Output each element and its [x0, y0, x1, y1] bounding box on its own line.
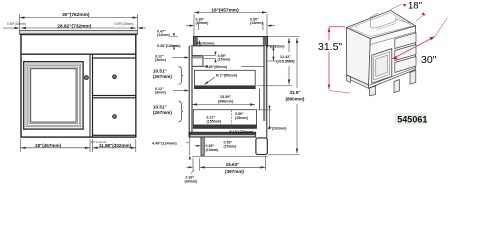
- interior platform edge: [396, 19, 410, 23]
- front wall double line: [188, 46, 190, 137]
- svg-text:12.42": 12.42": [280, 55, 292, 59]
- dim 2.36 bottom: [187, 166, 193, 168]
- pointer 0.47: [173, 33, 175, 36]
- svg-text:18"(457mm): 18"(457mm): [211, 7, 239, 13]
- dim 18in top: [194, 11, 267, 13]
- counter slab side: [194, 37, 268, 46]
- svg-text:15.63": 15.63": [226, 162, 240, 167]
- door knob: [84, 76, 88, 80]
- drawer 3 3d: [395, 57, 416, 73]
- leg front-left: [370, 86, 376, 96]
- dim 28.82: [21, 27, 136, 29]
- drawer top front: [93, 58, 136, 96]
- front leg: [201, 137, 204, 155]
- drawer bottom knob: [113, 115, 117, 119]
- svg-text:0.59"(15mm): 0.59"(15mm): [115, 22, 134, 26]
- leg back-left: [347, 75, 351, 83]
- right 0.59 arrow: [139, 27, 146, 29]
- cabinet body: [21, 35, 136, 138]
- dim 4 right top: [268, 45, 277, 47]
- svg-text:30": 30": [421, 54, 437, 66]
- text 2.36 rail: [205, 64, 242, 69]
- drawer top knob: [113, 75, 117, 79]
- brace 10.51 a: [179, 67, 183, 85]
- drawer 2 3d: [395, 45, 416, 61]
- dim 11.88 bottom: [93, 147, 136, 149]
- svg-text:(155mm): (155mm): [207, 119, 223, 123]
- svg-text:(3mm): (3mm): [155, 91, 167, 95]
- top rail box: [192, 56, 203, 67]
- floor line: [192, 155, 268, 157]
- dim 31.5: [268, 154, 300, 156]
- svg-text:10.51": 10.51": [153, 69, 167, 74]
- svg-text:30"(762mm): 30"(762mm): [62, 12, 90, 18]
- upper drawer box: [195, 70, 256, 88]
- top rim: [347, 10, 416, 38]
- svg-text:2.36": 2.36": [186, 175, 195, 179]
- svg-text:10.51": 10.51": [153, 105, 167, 110]
- side view dimension graphics: [170, 11, 300, 173]
- svg-text:31.5": 31.5": [289, 90, 300, 95]
- R2 pointer: [205, 77, 216, 85]
- part number 545061: [395, 113, 427, 124]
- side panel bottom notch: [347, 75, 370, 88]
- svg-text:(60mm): (60mm): [185, 180, 199, 184]
- countertop slab front: [20, 30, 138, 34]
- top inner rim: [350, 13, 413, 37]
- dim 15.63 bottom: [200, 166, 266, 168]
- svg-text:(15mm): (15mm): [224, 144, 238, 148]
- svg-text:4.49"(114mm): 4.49"(114mm): [152, 142, 177, 146]
- svg-text:31.5": 31.5": [318, 41, 342, 53]
- svg-text:(12mm): (12mm): [157, 33, 171, 37]
- svg-text:(3mm): (3mm): [155, 58, 167, 62]
- front bottom rail line: [369, 68, 416, 86]
- svg-text:(315.5MM): (315.5MM): [276, 60, 295, 64]
- front view dimensions: [3, 14, 146, 152]
- svg-text:(397mm): (397mm): [225, 169, 244, 174]
- dim 0.59 updown arrows (rail): [214, 52, 216, 63]
- door frame line 2: [28, 66, 80, 126]
- svg-text:(15mm): (15mm): [235, 116, 249, 120]
- interior rail second line: [377, 23, 396, 29]
- bottom extension lines: [20, 139, 22, 152]
- svg-text:18"(457mm): 18"(457mm): [35, 143, 62, 148]
- svg-text:5.12"(130mm): 5.12"(130mm): [230, 130, 254, 134]
- left 0.59 arrow: [3, 27, 18, 29]
- red dim 30: [393, 37, 435, 59]
- interior floor line: [353, 25, 358, 28]
- lower drawer box: [193, 110, 256, 129]
- svg-text:(10mm): (10mm): [206, 148, 220, 152]
- red dim 31.5: [328, 27, 330, 41]
- leg middle: [394, 80, 400, 93]
- svg-text:0.59"(15mm): 0.59"(15mm): [7, 22, 26, 26]
- dim 4 lower right: [258, 109, 272, 111]
- door inner panel: [31, 69, 76, 122]
- dim 18in bottom: [21, 147, 91, 149]
- red dim 18: [390, 4, 402, 10]
- interior U channel: [370, 13, 395, 28]
- 3D red dimensions: [318, 0, 448, 93]
- svg-text:(15mm): (15mm): [218, 58, 232, 62]
- door frame line 3: [29, 67, 78, 124]
- tiny 0.39 left dim: [186, 25, 193, 27]
- arrow to front leg (0.39): [195, 145, 200, 147]
- svg-text:(10mm): (10mm): [196, 21, 210, 25]
- pointer 0.12 b: [173, 90, 188, 92]
- drawer bottom front: [93, 98, 136, 136]
- pointer 4 left interior: [198, 41, 200, 47]
- back leg: [256, 138, 267, 155]
- door outer: [24, 62, 83, 129]
- svg-text:5.28"(134mm): 5.28"(134mm): [157, 44, 181, 48]
- door frame line 1: [26, 64, 81, 127]
- left side face: [347, 28, 371, 86]
- svg-text:(267mm): (267mm): [153, 74, 172, 79]
- drawer 1 3d: [395, 33, 416, 49]
- svg-text:18": 18": [408, 0, 422, 11]
- leg right: [410, 70, 416, 84]
- svg-text:545061: 545061: [397, 114, 427, 124]
- svg-text:R 2"(50mm): R 2"(50mm): [216, 74, 238, 78]
- stile lines: [89, 55, 91, 137]
- dim 15.59: [192, 104, 255, 106]
- dashed vertical in lower box: [231, 110, 233, 128]
- svg-text:4"(102mm): 4"(102mm): [266, 44, 285, 48]
- lower drawer box bottom band: [193, 125, 257, 129]
- svg-text:2.36"(60mm): 2.36"(60mm): [206, 65, 228, 69]
- pointer 5.28: [191, 45, 194, 47]
- svg-text:(396mm): (396mm): [218, 99, 234, 103]
- cabinet bottom band: [189, 132, 255, 137]
- dim 4.49 vertical ticks: [189, 138, 191, 156]
- top rail line: [21, 53, 136, 55]
- front face: [368, 26, 415, 88]
- brace 10.51 b: [179, 101, 183, 122]
- svg-text:(267mm): (267mm): [153, 110, 172, 115]
- pointer 0.12 a: [172, 57, 188, 59]
- door 3d: [372, 49, 392, 84]
- svg-text:4"(102mm): 4"(102mm): [268, 127, 287, 131]
- back wall double line: [264, 46, 266, 121]
- upper drawer box bottom band: [194, 85, 256, 88]
- svg-text:(13mm): (13mm): [250, 21, 264, 25]
- tiny 0.50 right dim: [268, 25, 275, 27]
- rail bottom line across: [192, 65, 264, 67]
- svg-text:11.88"(302mm): 11.88"(302mm): [99, 143, 132, 148]
- side view texts: [152, 7, 305, 183]
- svg-text:28.82"(732mm): 28.82"(732mm): [57, 24, 91, 30]
- dim 12.42: [268, 36, 300, 38]
- front dim texts: [7, 12, 133, 148]
- svg-text:4"(102mm): 4"(102mm): [196, 42, 215, 46]
- front top rail line: [370, 32, 415, 45]
- svg-text:15.59": 15.59": [220, 95, 232, 99]
- dim 30in top: [20, 17, 138, 19]
- mid back vertical: [259, 89, 261, 110]
- svg-text:(800mm): (800mm): [286, 97, 305, 102]
